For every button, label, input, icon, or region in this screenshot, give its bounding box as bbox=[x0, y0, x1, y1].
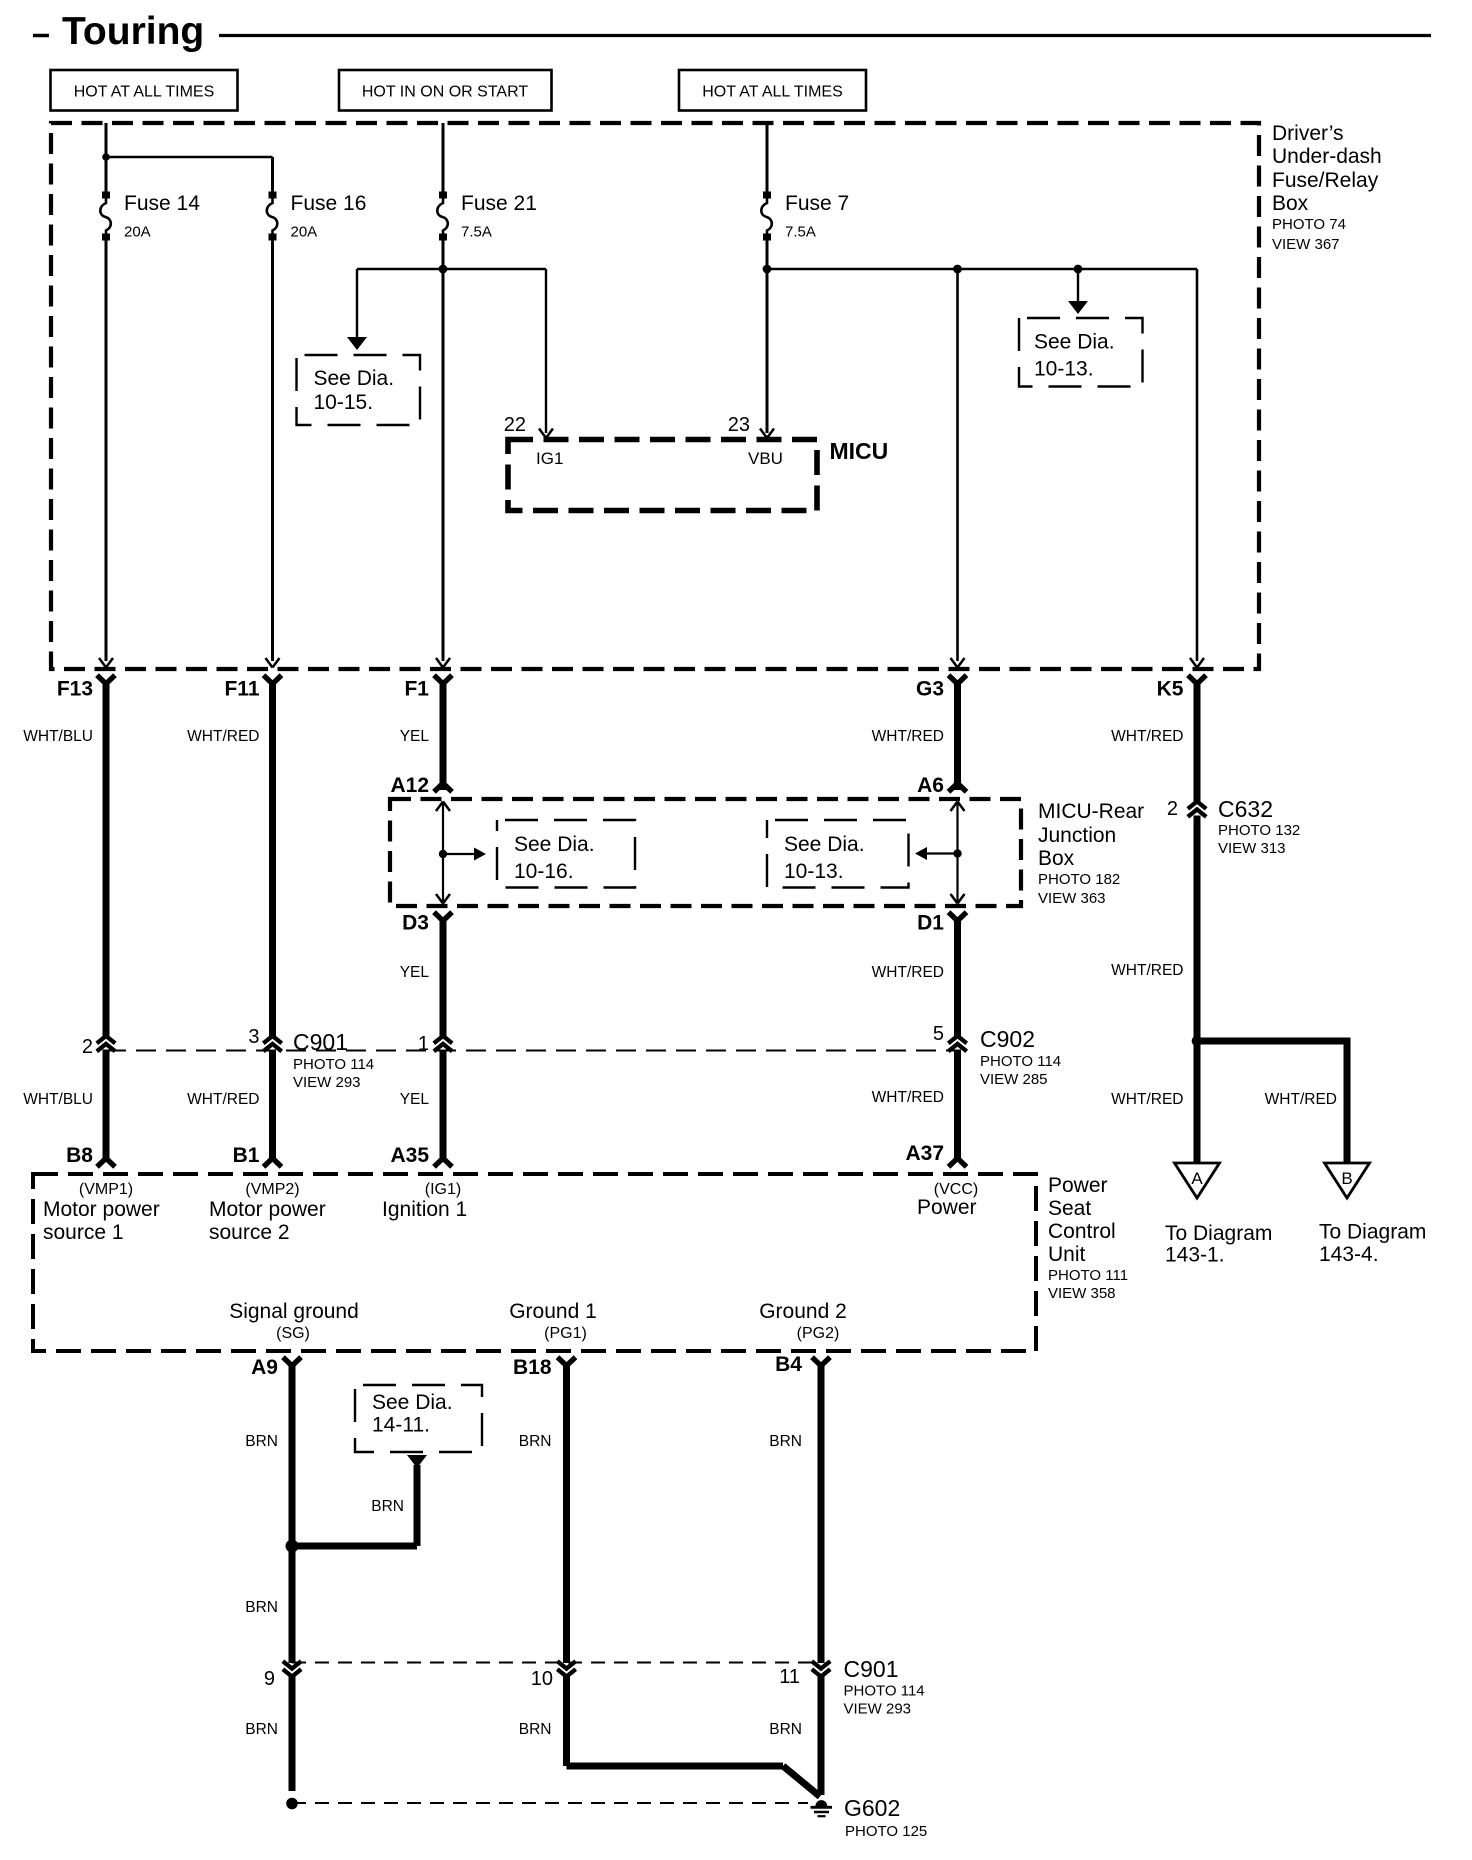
svg-text:MICU-Rear: MICU-Rear bbox=[1038, 800, 1144, 823]
svg-text:BRN: BRN bbox=[769, 1721, 802, 1738]
svg-text:F1: F1 bbox=[404, 678, 429, 701]
svg-text:See Dia.: See Dia. bbox=[1034, 331, 1115, 354]
svg-text:A35: A35 bbox=[390, 1144, 429, 1167]
svg-text:VIEW 367: VIEW 367 bbox=[1272, 236, 1340, 253]
svg-text:Fuse/Relay: Fuse/Relay bbox=[1272, 169, 1379, 192]
svg-text:(IG1): (IG1) bbox=[425, 1181, 461, 1198]
svg-text:(SG): (SG) bbox=[276, 1325, 310, 1342]
svg-text:YEL: YEL bbox=[400, 728, 430, 745]
svg-text:Control: Control bbox=[1048, 1220, 1116, 1243]
svg-text:BRN: BRN bbox=[245, 1599, 278, 1616]
svg-text:IG1: IG1 bbox=[536, 449, 563, 468]
svg-text:11: 11 bbox=[779, 1666, 800, 1688]
svg-text:3: 3 bbox=[248, 1026, 259, 1048]
svg-text:Fuse 14: Fuse 14 bbox=[124, 192, 200, 215]
svg-text:Fuse 16: Fuse 16 bbox=[291, 192, 367, 215]
svg-text:VIEW 358: VIEW 358 bbox=[1048, 1285, 1116, 1302]
svg-text:(PG2): (PG2) bbox=[797, 1325, 840, 1342]
svg-text:D3: D3 bbox=[402, 912, 429, 935]
svg-text:PHOTO 132: PHOTO 132 bbox=[1218, 822, 1300, 839]
svg-text:VBU: VBU bbox=[748, 449, 783, 468]
svg-text:WHT/RED: WHT/RED bbox=[187, 728, 259, 745]
svg-text:A12: A12 bbox=[390, 774, 429, 797]
svg-text:C902: C902 bbox=[980, 1026, 1035, 1052]
svg-text:Ground 2: Ground 2 bbox=[759, 1300, 847, 1323]
svg-text:source 2: source 2 bbox=[209, 1221, 290, 1244]
svg-text:A9: A9 bbox=[251, 1356, 278, 1379]
svg-text:B: B bbox=[1341, 1169, 1352, 1188]
svg-text:BRN: BRN bbox=[519, 1433, 552, 1450]
svg-text:VIEW 293: VIEW 293 bbox=[844, 1701, 912, 1718]
svg-text:(VMP1): (VMP1) bbox=[79, 1181, 133, 1198]
svg-text:7.5A: 7.5A bbox=[785, 224, 816, 241]
svg-text:10-13.: 10-13. bbox=[784, 860, 844, 883]
svg-text:Signal ground: Signal ground bbox=[229, 1300, 359, 1323]
svg-text:C632: C632 bbox=[1218, 796, 1273, 822]
svg-text:C901: C901 bbox=[844, 1656, 899, 1682]
svg-text:Box: Box bbox=[1272, 192, 1309, 215]
svg-text:BRN: BRN bbox=[245, 1433, 278, 1450]
svg-text:VIEW 285: VIEW 285 bbox=[980, 1071, 1048, 1088]
svg-text:YEL: YEL bbox=[400, 1091, 430, 1108]
svg-text:PHOTO 182: PHOTO 182 bbox=[1038, 871, 1120, 888]
svg-text:143-4.: 143-4. bbox=[1319, 1243, 1379, 1266]
svg-text:Motor power: Motor power bbox=[43, 1198, 160, 1221]
svg-text:B8: B8 bbox=[66, 1144, 93, 1167]
svg-text:To Diagram: To Diagram bbox=[1319, 1221, 1426, 1244]
svg-text:YEL: YEL bbox=[400, 964, 430, 981]
svg-text:14-11.: 14-11. bbox=[372, 1414, 430, 1437]
svg-text:PHOTO 114: PHOTO 114 bbox=[980, 1053, 1061, 1070]
svg-text:BRN: BRN bbox=[245, 1721, 278, 1738]
svg-text:20A: 20A bbox=[291, 224, 318, 241]
svg-text:B1: B1 bbox=[233, 1144, 260, 1167]
svg-text:Power: Power bbox=[1048, 1174, 1108, 1197]
svg-text:2: 2 bbox=[1167, 798, 1178, 820]
svg-text:WHT/RED: WHT/RED bbox=[872, 728, 944, 745]
svg-text:See Dia.: See Dia. bbox=[314, 367, 395, 390]
svg-text:Box: Box bbox=[1038, 847, 1075, 870]
svg-text:WHT/RED: WHT/RED bbox=[1111, 728, 1183, 745]
svg-text:Driver’s: Driver’s bbox=[1272, 122, 1344, 145]
svg-text:G602: G602 bbox=[844, 1795, 900, 1821]
svg-text:9: 9 bbox=[264, 1668, 275, 1690]
svg-text:VIEW 293: VIEW 293 bbox=[293, 1074, 361, 1091]
svg-text:G3: G3 bbox=[916, 678, 944, 701]
svg-text:10-16.: 10-16. bbox=[514, 860, 574, 883]
svg-text:VIEW 363: VIEW 363 bbox=[1038, 890, 1106, 907]
svg-text:WHT/RED: WHT/RED bbox=[1265, 1091, 1337, 1108]
svg-text:See Dia.: See Dia. bbox=[372, 1391, 453, 1414]
svg-text:10-13.: 10-13. bbox=[1034, 358, 1094, 381]
svg-text:PHOTO 125: PHOTO 125 bbox=[845, 1823, 927, 1840]
svg-text:(PG1): (PG1) bbox=[544, 1325, 587, 1342]
svg-text:5: 5 bbox=[933, 1023, 944, 1045]
svg-text:BRN: BRN bbox=[371, 1498, 404, 1515]
svg-text:PHOTO 114: PHOTO 114 bbox=[844, 1683, 925, 1700]
svg-text:143-1.: 143-1. bbox=[1165, 1244, 1225, 1267]
svg-text:(VMP2): (VMP2) bbox=[245, 1181, 299, 1198]
svg-text:BRN: BRN bbox=[519, 1721, 552, 1738]
svg-text:A6: A6 bbox=[917, 774, 944, 797]
svg-text:D1: D1 bbox=[917, 912, 944, 935]
svg-text:23: 23 bbox=[728, 414, 750, 436]
svg-text:BRN: BRN bbox=[769, 1433, 802, 1450]
svg-text:Touring: Touring bbox=[62, 10, 204, 53]
svg-text:Fuse 21: Fuse 21 bbox=[461, 192, 537, 215]
svg-text:C901: C901 bbox=[293, 1029, 348, 1055]
svg-text:K5: K5 bbox=[1157, 678, 1184, 701]
svg-text:Fuse 7: Fuse 7 bbox=[785, 192, 849, 215]
svg-text:WHT/RED: WHT/RED bbox=[872, 964, 944, 981]
svg-text:22: 22 bbox=[504, 414, 526, 436]
svg-text:B18: B18 bbox=[513, 1356, 552, 1379]
svg-text:PHOTO 114: PHOTO 114 bbox=[293, 1056, 374, 1073]
svg-text:WHT/RED: WHT/RED bbox=[872, 1089, 944, 1106]
svg-text:Under-dash: Under-dash bbox=[1272, 145, 1382, 168]
svg-text:WHT/RED: WHT/RED bbox=[1111, 1091, 1183, 1108]
svg-text:PHOTO 111: PHOTO 111 bbox=[1048, 1267, 1128, 1284]
svg-text:F13: F13 bbox=[57, 678, 93, 701]
svg-text:See Dia.: See Dia. bbox=[514, 833, 595, 856]
svg-text:Unit: Unit bbox=[1048, 1243, 1086, 1266]
svg-text:B4: B4 bbox=[775, 1353, 802, 1376]
svg-text:MICU: MICU bbox=[830, 438, 889, 464]
svg-text:Ground 1: Ground 1 bbox=[509, 1300, 597, 1323]
svg-text:Seat: Seat bbox=[1048, 1197, 1091, 1220]
svg-text:source 1: source 1 bbox=[43, 1221, 124, 1244]
svg-text:Power: Power bbox=[917, 1196, 977, 1219]
svg-text:WHT/BLU: WHT/BLU bbox=[23, 728, 93, 745]
svg-text:HOT IN ON OR START: HOT IN ON OR START bbox=[362, 84, 528, 101]
svg-text:F11: F11 bbox=[224, 678, 259, 701]
svg-text:A37: A37 bbox=[905, 1142, 944, 1165]
svg-text:A: A bbox=[1191, 1169, 1203, 1188]
svg-text:20A: 20A bbox=[124, 224, 151, 241]
svg-text:VIEW 313: VIEW 313 bbox=[1218, 840, 1286, 857]
svg-text:To Diagram: To Diagram bbox=[1165, 1222, 1272, 1245]
svg-text:Junction: Junction bbox=[1038, 824, 1116, 847]
svg-text:WHT/RED: WHT/RED bbox=[1111, 962, 1183, 979]
svg-text:10: 10 bbox=[531, 1668, 553, 1690]
svg-text:See Dia.: See Dia. bbox=[784, 833, 865, 856]
svg-text:Motor power: Motor power bbox=[209, 1198, 326, 1221]
svg-text:HOT AT ALL TIMES: HOT AT ALL TIMES bbox=[74, 84, 215, 101]
svg-text:7.5A: 7.5A bbox=[461, 224, 492, 241]
svg-text:HOT AT ALL TIMES: HOT AT ALL TIMES bbox=[702, 84, 843, 101]
svg-text:WHT/BLU: WHT/BLU bbox=[23, 1091, 93, 1108]
svg-text:1: 1 bbox=[418, 1033, 429, 1055]
svg-text:Ignition 1: Ignition 1 bbox=[382, 1198, 467, 1221]
svg-text:PHOTO 74: PHOTO 74 bbox=[1272, 216, 1346, 233]
svg-text:2: 2 bbox=[82, 1036, 93, 1058]
svg-text:10-15.: 10-15. bbox=[314, 391, 374, 414]
svg-text:WHT/RED: WHT/RED bbox=[187, 1091, 259, 1108]
